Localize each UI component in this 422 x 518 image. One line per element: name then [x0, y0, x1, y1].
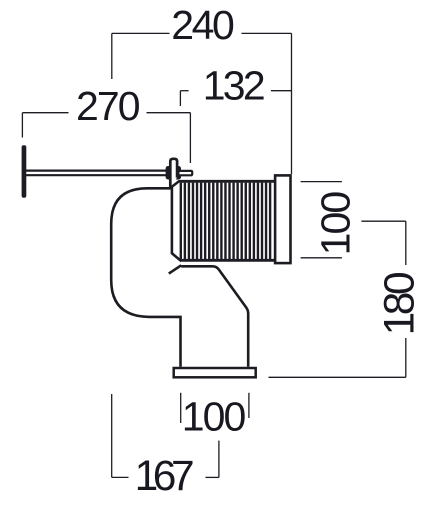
dim 100 bottom ext left	[180, 393, 182, 423]
dim 100 right ext top	[301, 181, 342, 183]
dim 167 line right	[206, 476, 219, 478]
svg-text:270: 270	[76, 83, 141, 129]
corrugations	[181, 183, 270, 260]
dim 100 right ext bottom	[301, 257, 342, 259]
lever tab	[170, 159, 177, 188]
corrugated pipe bottom edge	[181, 259, 276, 262]
svg-text:240: 240	[171, 2, 235, 48]
trap body left outline	[111, 188, 180, 366]
dim 270 ext right	[189, 113, 191, 163]
pipe right flange	[275, 175, 290, 263]
dim 240/132 ext right	[291, 33, 293, 174]
dim 270 ext left	[21, 113, 23, 138]
pivot collar	[166, 166, 181, 180]
dimension lines	[22, 33, 405, 477]
socket lip dash	[169, 265, 181, 273]
svg-text:100: 100	[312, 191, 358, 256]
dim 167 ext right	[218, 441, 220, 478]
rod bottom line	[24, 174, 167, 176]
rod top line	[24, 170, 167, 172]
dim 100 bottom ext right	[248, 393, 250, 418]
svg-text:100: 100	[182, 394, 247, 440]
dim 180 vert bottom	[405, 338, 407, 377]
corrugated pipe top edge	[179, 180, 276, 183]
dim 270 line right	[147, 112, 191, 114]
rod end cap	[22, 145, 27, 198]
svg-text:167: 167	[135, 453, 195, 500]
dim 132 line left	[180, 90, 188, 92]
svg-text:132: 132	[203, 63, 266, 109]
dim 132 line right	[271, 90, 292, 92]
dim 240 ext left	[111, 33, 113, 79]
dim 132 ext left	[179, 91, 181, 106]
dim 180 bottom horiz	[269, 376, 406, 378]
stub	[178, 171, 192, 175]
svg-text:180: 180	[376, 271, 422, 335]
dim 180 vert top	[405, 221, 407, 265]
socket left edge	[172, 187, 182, 261]
dim 240 line left	[112, 32, 170, 34]
dim 270 line left	[22, 112, 68, 114]
dim 167 line left	[112, 476, 129, 478]
dim 167 ext left	[111, 394, 113, 477]
cone diagonal	[172, 181, 180, 187]
dimension texts	[76, 2, 422, 500]
outlet top outline	[181, 266, 248, 367]
dim 240 line right	[242, 32, 292, 34]
bottom outlet flange	[174, 368, 256, 377]
dim 180 top horiz	[361, 220, 405, 222]
